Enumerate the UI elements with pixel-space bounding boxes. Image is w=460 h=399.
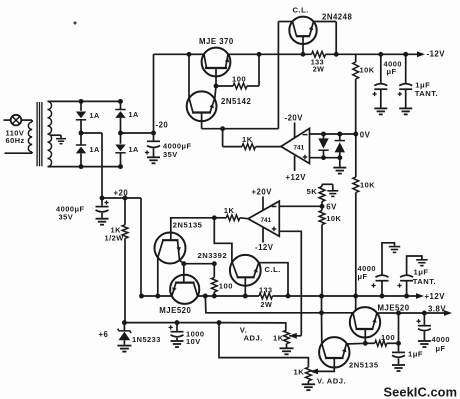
- ground R14: [302, 383, 316, 385]
- ground R12: [280, 347, 294, 349]
- node D5 top: [321, 132, 326, 137]
- wire AC to primary: [21, 119, 32, 121]
- wire diode ground stub: [339, 158, 341, 167]
- svg-text:6V: 6V: [326, 203, 337, 212]
- svg-text:1K: 1K: [242, 135, 253, 144]
- svg-text:5K: 5K: [307, 187, 318, 196]
- transistor Q5 MJE520: [170, 275, 199, 304]
- svg-text:2N5135: 2N5135: [173, 220, 203, 229]
- svg-text:10K: 10K: [326, 214, 341, 223]
- node -20: [151, 131, 156, 136]
- node rail Q6 base: [243, 294, 248, 299]
- svg-text:1A: 1A: [129, 110, 139, 119]
- ground C7: [171, 340, 184, 342]
- arrow +12V: [416, 293, 424, 299]
- ground center tap: [56, 138, 66, 140]
- node rail Q4 collector: [155, 294, 160, 299]
- diode D4 1A (bottom right): [120, 133, 122, 144]
- svg-text:MJE 370: MJE 370: [199, 37, 234, 46]
- svg-text:2N4248: 2N4248: [322, 13, 352, 22]
- op-amp U2 741: [248, 201, 279, 236]
- wire node A to 1K: [222, 129, 224, 147]
- wire Q3 emitter to rail: [314, 21, 337, 23]
- resistor R8 10K: [321, 206, 323, 210]
- svg-text:10V: 10V: [186, 337, 201, 346]
- wire node B right: [184, 263, 215, 265]
- polarity + C5: [371, 285, 375, 287]
- resistor R1 100: [216, 85, 233, 87]
- wire 1K to U1 output: [256, 146, 281, 148]
- node R13 right: [396, 341, 401, 346]
- diode D1 1A (top left): [80, 101, 82, 110]
- svg-text:-12V: -12V: [427, 50, 446, 59]
- node rail C6: [404, 294, 409, 299]
- node 3.8V C9: [422, 311, 427, 316]
- wire U1 V+ supply: [294, 156, 296, 171]
- ground C9: [418, 340, 431, 342]
- svg-text:10K: 10K: [360, 181, 375, 190]
- node D6 top: [337, 132, 342, 137]
- svg-text:-12V: -12V: [255, 243, 274, 252]
- wire -20 node up to MJE370 rail: [153, 54, 155, 133]
- polarity + C4: [104, 202, 108, 204]
- svg-text:SeekIC.com: SeekIC.com: [384, 385, 458, 399]
- wire Q7 emitter 3.8V line: [377, 312, 448, 314]
- wire node A to 2N4248 collector: [223, 128, 279, 130]
- pin U1 non-inverting +: [303, 156, 308, 158]
- transistor Q8 2N5135: [319, 337, 349, 367]
- capacitor C9 4000uF: [423, 313, 425, 325]
- wire secondary bottom rail: [48, 166, 121, 168]
- resistor R3 1K: [226, 215, 240, 221]
- svg-text:1A: 1A: [90, 111, 100, 120]
- polarity + C7: [169, 326, 173, 328]
- wire +20 rail: [102, 197, 141, 199]
- diode D3 1A (top right): [120, 101, 122, 109]
- svg-text:MJE520: MJE520: [378, 303, 410, 312]
- svg-text:0V: 0V: [360, 130, 371, 139]
- transistor Q3 2N4248 C.L.: [289, 17, 316, 44]
- node 100 to rail: [257, 52, 262, 57]
- svg-text:ADJ.: ADJ.: [244, 333, 263, 342]
- resistor R2 1K: [242, 144, 256, 150]
- node D4 cathode: [118, 164, 123, 169]
- svg-text:4000: 4000: [432, 335, 450, 344]
- wire secondary top rail: [48, 100, 121, 102]
- pin U2 non-inverting +: [272, 228, 277, 230]
- node D6 bottom: [337, 155, 342, 160]
- svg-text:-20: -20: [156, 120, 169, 129]
- svg-text:V. ADJ.: V. ADJ.: [317, 376, 346, 385]
- wire bridge +out to x102: [81, 132, 102, 134]
- svg-text:2W: 2W: [261, 300, 273, 309]
- capacitor C1 4000uF 35V: [153, 133, 155, 141]
- resistor R11 133 2W (on +12V rail): [259, 293, 273, 299]
- polarity + C2: [373, 93, 377, 95]
- wire U1 plus input wire: [310, 157, 340, 159]
- node R9 top: [123, 196, 128, 201]
- node 1K R3 junction: [212, 215, 217, 220]
- wire U2 V- supply: [262, 228, 264, 243]
- node rail x141: [139, 294, 144, 299]
- resistor R5 10K: [355, 54, 357, 62]
- arrow 3.8V: [444, 310, 452, 316]
- capacitor C6 1uF TANT: [406, 282, 408, 297]
- wire U2 plus input to wiper: [279, 231, 301, 335]
- node 2N4248 base rail: [301, 52, 306, 57]
- wire 6V to U2 inverting input: [279, 205, 322, 207]
- svg-text:741: 741: [261, 217, 272, 224]
- wire -12V rail left: [189, 53, 204, 55]
- svg-text:+20V: +20V: [252, 188, 273, 197]
- ground C6: [416, 259, 428, 261]
- node Q1 base: [214, 84, 219, 89]
- transistor Q1 MJE370: [202, 48, 231, 77]
- node +6 to pot2 branch: [217, 320, 222, 325]
- wire U1 V- supply: [294, 123, 296, 138]
- transformer T1 core: [36, 102, 38, 166]
- pin U1 inverting -: [303, 134, 308, 136]
- wire Q4 emitter to node B: [180, 260, 184, 264]
- polarity + C6: [397, 285, 401, 287]
- wire -12V rail main: [228, 53, 312, 55]
- resistor R13 100: [365, 342, 375, 344]
- resistor R10 100: [213, 264, 215, 278]
- transistor Q7 MJE520: [350, 307, 380, 337]
- transistor Q2 2N5142: [187, 91, 217, 121]
- svg-text:741: 741: [294, 144, 305, 151]
- wire U1 minus input to 0V: [310, 133, 356, 135]
- node C3 rail: [403, 52, 408, 57]
- polarity + C3: [398, 93, 402, 95]
- speck artifact: [74, 22, 76, 24]
- svg-text:+12V: +12V: [425, 292, 446, 301]
- transistor Q4 2N5135: [155, 233, 186, 264]
- svg-text:2N5142: 2N5142: [221, 97, 251, 106]
- node D5 bottom: [321, 155, 326, 160]
- svg-text:100: 100: [219, 281, 233, 290]
- svg-text:2W: 2W: [313, 65, 325, 74]
- svg-text:+6: +6: [99, 330, 109, 339]
- svg-text:C.L.: C.L.: [293, 6, 309, 15]
- wire Q4 collector down: [157, 258, 159, 297]
- ground C1: [147, 156, 160, 158]
- AC source 110V 60Hz: [11, 115, 22, 126]
- node C7 rail: [175, 320, 180, 325]
- node C2 rail: [378, 52, 383, 57]
- node 2N4248 emitter rail: [334, 52, 339, 57]
- svg-text:1/2W: 1/2W: [105, 233, 124, 242]
- node rail Q5 collector out: [203, 294, 208, 299]
- polarity + C1: [145, 152, 149, 154]
- svg-text:1K: 1K: [273, 334, 284, 343]
- resistor R6 10K: [355, 134, 357, 177]
- svg-text:100: 100: [232, 75, 246, 84]
- svg-text:2N5135: 2N5135: [349, 360, 379, 369]
- svg-text:1μF: 1μF: [408, 349, 423, 358]
- node 0V: [353, 132, 358, 137]
- node secondary bottom / D2 anode: [79, 164, 84, 169]
- svg-text:1K: 1K: [224, 206, 235, 215]
- wire R3 to U2 output: [240, 217, 248, 220]
- svg-text:μF: μF: [358, 272, 368, 281]
- wire R7 to ground bracket: [322, 183, 333, 185]
- op-amp U1 741: [281, 128, 310, 163]
- capacitor C3 1uF TANT: [405, 54, 407, 83]
- node 6V: [320, 204, 325, 209]
- capacitor C4 4000uF 35V: [101, 198, 103, 206]
- wire U2 drive to Q6 collector: [214, 218, 232, 262]
- wire +6 rail: [124, 322, 219, 324]
- svg-text:2N3392: 2N3392: [198, 251, 228, 260]
- ground C5: [389, 246, 401, 248]
- svg-text:MJE520: MJE520: [159, 306, 191, 315]
- ground D7: [117, 345, 131, 347]
- node MJE370 collector rail: [187, 52, 192, 57]
- ground C2: [374, 107, 387, 109]
- node rail x321: [319, 294, 324, 299]
- wire +12V rail left: [142, 295, 172, 297]
- svg-text:1μF: 1μF: [414, 267, 429, 276]
- svg-text:C.L.: C.L.: [265, 265, 281, 274]
- wire Q8 emitter to Q7 base: [346, 342, 365, 345]
- wire Q6 emitter loop to rail: [259, 263, 288, 296]
- node D3 cathode: [118, 99, 123, 104]
- node bridge -out: [118, 131, 123, 136]
- potentiometer R12 1K V.ADJ: [284, 330, 290, 344]
- wire Q5 output to Q7 collector: [205, 296, 353, 313]
- node rail R6 bottom: [353, 294, 358, 299]
- diode D6 clamp: [339, 134, 341, 141]
- resistor R4 133 2W (on rail): [312, 51, 326, 57]
- wire node B to MJE520 base: [183, 264, 185, 283]
- svg-text:35V: 35V: [59, 212, 74, 221]
- zener D7 1N5233: [123, 323, 125, 331]
- ground C8: [392, 364, 405, 366]
- wire primary bottom lead: [31, 152, 33, 153]
- svg-text:35V: 35V: [163, 150, 178, 159]
- ground C4: [96, 218, 109, 220]
- svg-text:1A: 1A: [129, 145, 139, 154]
- node bridge +out: [79, 131, 84, 136]
- node +20 cap junction: [100, 196, 105, 201]
- svg-text:TANT.: TANT.: [415, 89, 438, 98]
- node x321 output line: [319, 310, 324, 315]
- svg-text:60Hz: 60Hz: [6, 136, 25, 145]
- svg-text:-20V: -20V: [285, 114, 304, 123]
- wire R13 to 3.8V line: [398, 313, 400, 343]
- transistor Q6 2N3392 C.L.: [230, 255, 261, 286]
- svg-text:133: 133: [259, 285, 273, 294]
- capacitor C5 4000uF: [381, 282, 383, 297]
- node +6 zener: [122, 320, 127, 325]
- capacitor C8 1uF: [398, 343, 400, 351]
- svg-text:10K: 10K: [360, 65, 375, 74]
- resistor R9 1K 1/2W: [124, 198, 126, 225]
- wire bridge -out to -20 node: [121, 132, 154, 134]
- wire Q2 base to node A: [202, 128, 223, 130]
- resistor R7 5K: [321, 184, 323, 186]
- wire Q2 emitter up: [215, 86, 216, 99]
- node A (drive node): [220, 126, 225, 131]
- node 3.8V R13: [396, 311, 401, 316]
- svg-text:1N5233: 1N5233: [132, 335, 161, 344]
- wire x321 vertical: [321, 296, 323, 313]
- transformer T1 secondary winding: [48, 101, 52, 109]
- capacitor C2 4000uF: [380, 54, 382, 83]
- node secondary top / D1 anode: [79, 99, 84, 104]
- svg-text:1A: 1A: [90, 145, 100, 154]
- wire AC left lead: [4, 119, 11, 121]
- capacitor C7 1000 10V: [176, 323, 178, 331]
- wiper R14 arrow: [310, 369, 318, 375]
- potentiometer R14 1K V.ADJ: [306, 367, 312, 381]
- svg-text:+12V: +12V: [286, 173, 307, 182]
- node Q7 base: [363, 341, 368, 346]
- node rail C5: [380, 294, 385, 299]
- wire center tap: [51, 134, 62, 136]
- wire node to R3: [214, 217, 226, 219]
- svg-text:3.8V: 3.8V: [428, 304, 446, 313]
- diode D5 clamp: [323, 134, 325, 138]
- node rail CL loop: [286, 294, 291, 299]
- wire Q3 collector loop: [278, 21, 292, 23]
- wire +6 branch down: [219, 323, 308, 368]
- wire rail stub to Q7: [355, 296, 357, 310]
- polarity + C9: [417, 320, 421, 322]
- diode D2 1A (bottom left): [80, 133, 82, 145]
- node R10 top: [212, 261, 217, 266]
- ground R7: [327, 190, 338, 192]
- svg-text:100: 100: [381, 333, 395, 342]
- arrow -12V: [417, 51, 425, 57]
- ground C3: [399, 107, 412, 109]
- node B: [181, 261, 186, 266]
- transformer T1 primary winding: [28, 122, 32, 130]
- wire +20 down right branch: [140, 198, 142, 296]
- node rail R10 bottom: [212, 294, 217, 299]
- ground clamp diodes: [333, 167, 346, 169]
- svg-text:1K: 1K: [294, 368, 305, 377]
- wire +12V rail mid: [198, 295, 260, 297]
- wiper R12: [289, 335, 301, 337]
- wire rail to Q2 collector: [188, 54, 190, 98]
- wire U2 1K input: [171, 218, 215, 240]
- pin U2 inverting -: [272, 206, 277, 208]
- wire U2 V+ supply: [262, 197, 264, 211]
- svg-text:TANT.: TANT.: [413, 277, 436, 286]
- svg-text:μF: μF: [387, 67, 397, 76]
- svg-text:μF: μF: [436, 344, 446, 353]
